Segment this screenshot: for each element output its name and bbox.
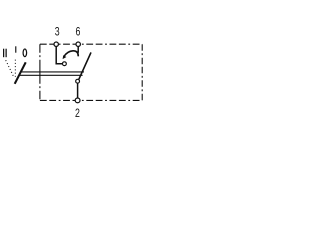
- wire from terminal 3 (L shape): [56, 46, 62, 64]
- wire pivot to terminal 2: [77, 83, 79, 98]
- svg-text:2: 2: [75, 107, 80, 121]
- enclosure box bottom edge: [40, 99, 142, 101]
- label 6: [75, 25, 80, 39]
- terminal 6: [76, 42, 80, 46]
- dotted lever position I line: [14, 60, 16, 77]
- terminal 3: [54, 42, 58, 46]
- fixed contact circle (for terminal 3): [63, 62, 67, 66]
- enclosure box left edge: [39, 44, 41, 100]
- label II (position II): [3, 49, 7, 58]
- terminal 2: [75, 98, 80, 103]
- enclosure box top edge (chain line): [40, 43, 142, 45]
- mechanical link upper line: [21, 71, 84, 73]
- label 3: [55, 25, 60, 39]
- curved motion arrow: [64, 51, 78, 57]
- enclosure box right edge: [141, 44, 143, 100]
- mechanical link lower line: [19, 74, 83, 76]
- switch blade (movable contact): [79, 52, 91, 79]
- wire stub below terminal 6: [77, 46, 79, 53]
- label I (position I tick): [15, 46, 16, 52]
- blade pivot contact circle: [76, 79, 80, 83]
- svg-text:3: 3: [55, 25, 60, 39]
- label 0 (position 0): [23, 49, 27, 57]
- label 2: [75, 107, 80, 121]
- lever (solid, position 0): [15, 62, 26, 84]
- svg-text:6: 6: [75, 25, 80, 39]
- dotted lever position II line: [6, 60, 14, 77]
